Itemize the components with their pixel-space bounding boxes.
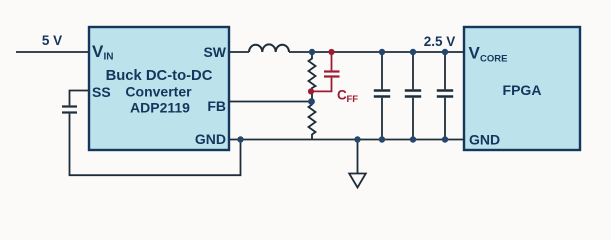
svg-text:CORE: CORE [480, 54, 507, 65]
svg-text:GND: GND [469, 132, 500, 148]
svg-text:C: C [337, 88, 347, 103]
svg-text:GND: GND [195, 131, 226, 147]
svg-text:FF: FF [347, 94, 359, 105]
svg-text:Converter: Converter [125, 84, 192, 100]
svg-text:FPGA: FPGA [503, 82, 542, 98]
svg-text:IN: IN [104, 52, 114, 63]
svg-text:5 V: 5 V [42, 33, 62, 48]
svg-text:V: V [469, 44, 481, 63]
svg-text:ADP2119: ADP2119 [130, 100, 190, 116]
svg-text:SS: SS [92, 84, 111, 100]
svg-text:V: V [92, 42, 104, 61]
svg-text:FB: FB [207, 98, 226, 114]
svg-text:Buck DC-to-DC: Buck DC-to-DC [106, 68, 213, 84]
svg-text:2.5 V: 2.5 V [424, 34, 456, 49]
svg-text:SW: SW [203, 44, 226, 60]
